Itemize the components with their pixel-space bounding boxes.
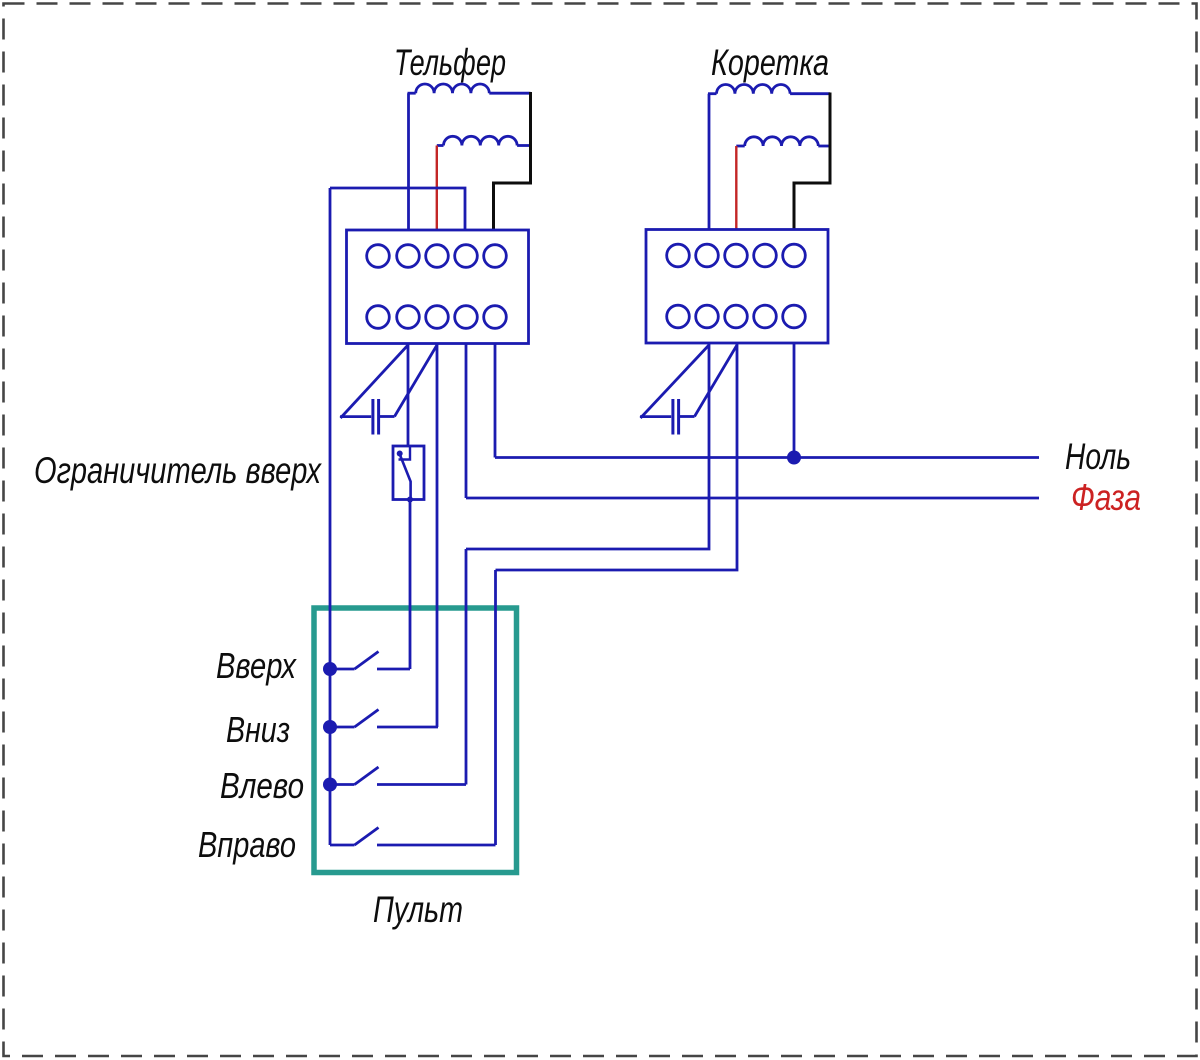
wire: pendant common riser top horizontal (330, 188, 465, 230)
switch: Влево button (330, 783, 355, 786)
wire: hoist main winding right lead (489, 92, 530, 95)
wire: trolley main winding right lead (790, 92, 830, 95)
terminal pins: hoist row 2 (367, 306, 507, 329)
wire: pendant row 4 riser (494, 570, 497, 845)
switch: Вверх button (330, 668, 355, 671)
svg-text:Ограничитель вверх: Ограничитель вверх (34, 450, 322, 491)
inductor: hoist start winding (437, 144, 444, 147)
svg-text:Тельфер: Тельфер (394, 42, 506, 83)
wire: hoist terminal 4 down to neutral line (494, 344, 497, 458)
terminal pins: trolley row 2 (667, 305, 806, 328)
svg-text:Фаза: Фаза (1071, 477, 1141, 518)
wire: hoist terminal 3 down to phase line (465, 344, 468, 499)
wire: Вниз fixed contact (377, 726, 438, 729)
svg-text:Вправо: Вправо (198, 824, 296, 865)
terminal pins: trolley row 1 (667, 244, 806, 267)
switch: Вправо button (330, 844, 355, 847)
net: neutral line Ноль (495, 456, 1039, 459)
wire: pendant row 3 riser (465, 549, 468, 785)
switch blade: Вверх (355, 652, 379, 670)
wire: hoist start winding right lead (517, 144, 530, 147)
wire: Вправо fixed contact (377, 844, 496, 847)
limit switch: up limiter box (393, 446, 424, 500)
wire: pendant common riser vertical (329, 188, 332, 845)
junction: pendant row 1 dot (323, 662, 337, 676)
junction: pendant row 2 dot (323, 720, 337, 734)
switch blade: Вниз (355, 710, 379, 728)
terminal block: trolley (646, 230, 828, 344)
wire: hoist start winding red wire (436, 146, 438, 231)
wire: limit switch to pendant row 1 (409, 500, 412, 670)
wire: Вверх fixed contact (377, 668, 410, 671)
wire: hoist main winding left lead (407, 93, 410, 230)
wire: trolley terminal 5 down to neutral junction (793, 343, 796, 458)
wire: trolley main winding left lead (708, 94, 711, 230)
wire: hoist terminal 2 down to pendant row 2 (436, 344, 439, 728)
wire: hoist capacitor diagonal lead 2 (395, 345, 438, 417)
switch blade: Вправо (355, 828, 379, 846)
wire: Влево fixed contact (377, 783, 466, 786)
wire: hoist black neutral wire (494, 92, 531, 230)
junction: neutral line dot (787, 451, 801, 465)
terminal pins: hoist row 1 (367, 245, 507, 268)
wire: trolley capacitor right lead (680, 415, 695, 418)
svg-text:Влево: Влево (220, 765, 304, 806)
svg-text:Вниз: Вниз (226, 709, 290, 750)
net: phase line Фаза (466, 497, 1039, 500)
wire: trolley start winding right lead (818, 145, 830, 148)
switch blade: Влево (355, 767, 379, 785)
wire: trolley capacitor diagonal lead 1 (641, 345, 710, 418)
wire: trolley start winding red wire (735, 146, 737, 230)
capacitor: trolley start capacitor (673, 399, 679, 435)
wire: hoist capacitor diagonal lead 1 (341, 345, 409, 418)
inductor: trolley main winding (708, 92, 717, 95)
wire: trolley black neutral wire (794, 93, 830, 230)
wire: trolley capacitor diagonal lead 2 (695, 345, 738, 417)
capacitor: hoist start capacitor (373, 399, 379, 435)
wire: trolley terminal 2 down and left to pendant row 4 riser (496, 343, 738, 570)
limit switch: internal contact (397, 446, 413, 503)
svg-text:Коретка: Коретка (711, 42, 829, 83)
svg-text:Вверх: Вверх (216, 645, 298, 686)
wire: hoist terminal 1 down to limit switch (407, 344, 410, 447)
inductor: trolley start winding (736, 145, 744, 148)
svg-text:Ноль: Ноль (1065, 436, 1131, 477)
terminal block: hoist (347, 230, 529, 344)
wire: hoist capacitor left lead (340, 415, 371, 418)
wire: hoist capacitor right lead (380, 415, 395, 418)
wire: trolley terminal 1 down and left to pendant row 3 riser (466, 343, 709, 549)
pendant box: Пульт (314, 608, 517, 873)
junction: pendant row 3 dot (323, 778, 337, 792)
svg-text:Пульт: Пульт (373, 889, 463, 930)
inductor: hoist main winding (408, 92, 416, 95)
wire: trolley capacitor left lead (640, 415, 671, 418)
switch: Вниз button (330, 726, 355, 729)
